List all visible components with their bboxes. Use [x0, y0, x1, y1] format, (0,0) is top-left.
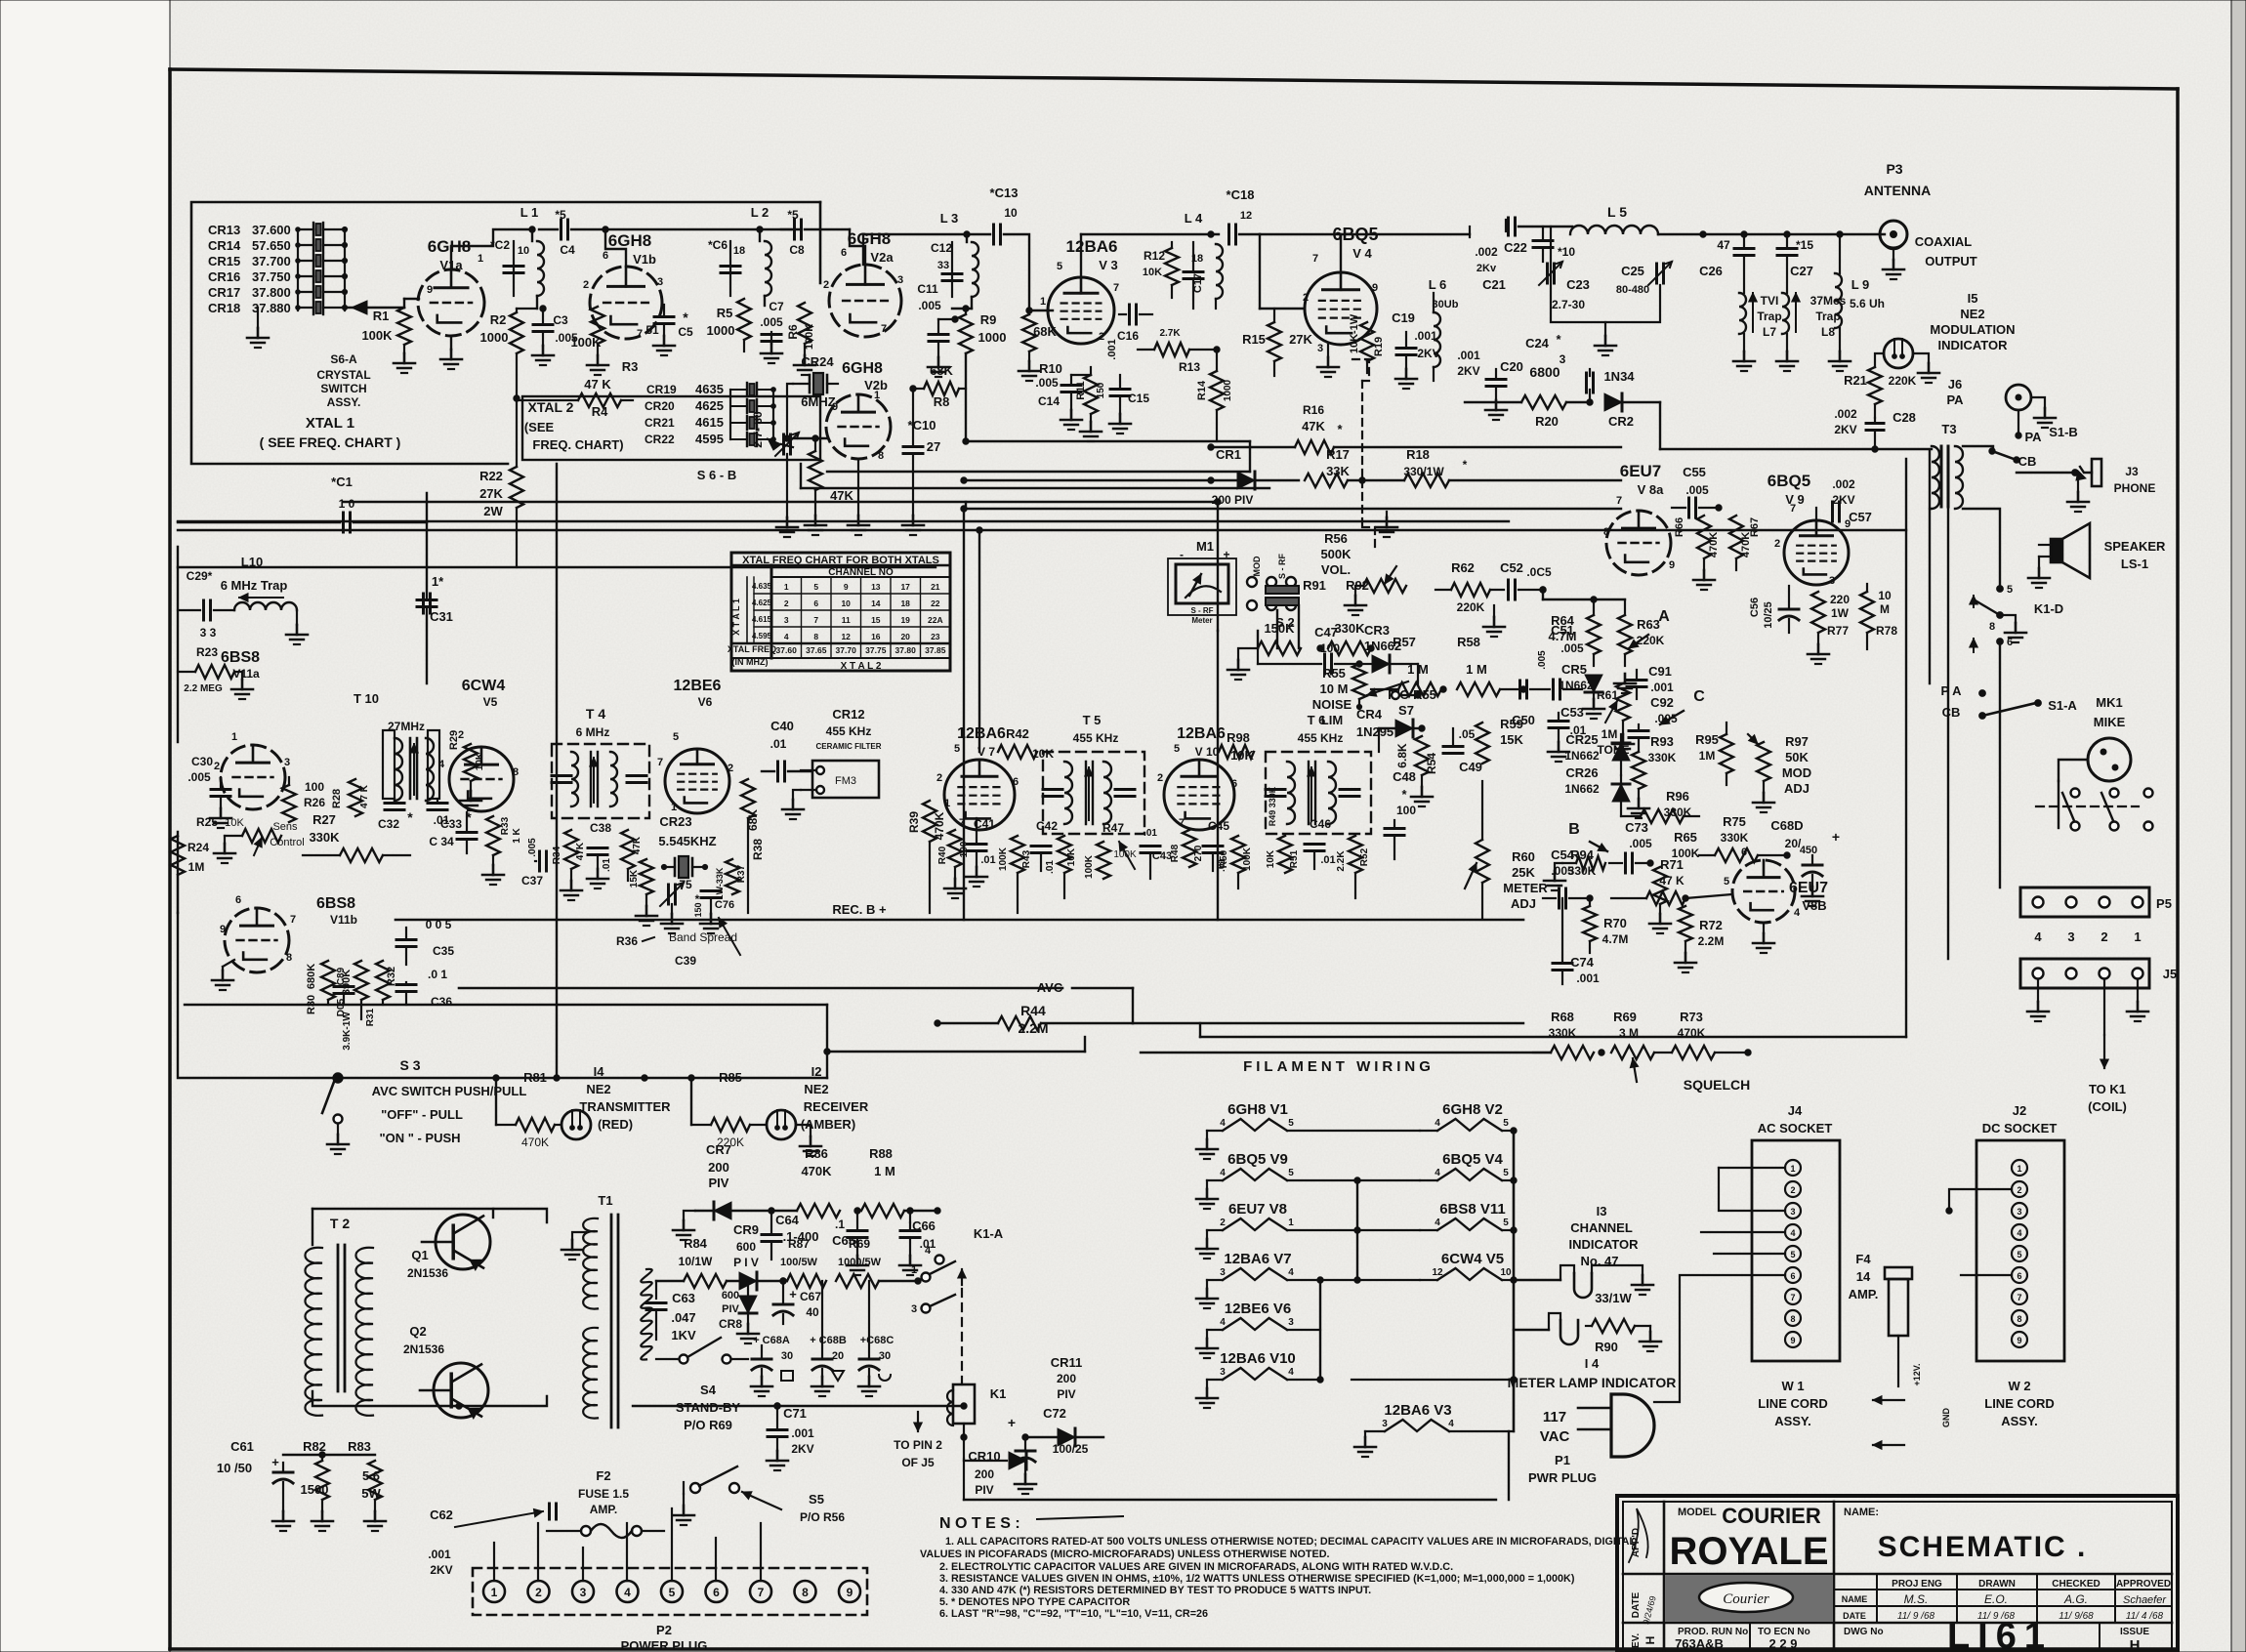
- svg-text:+: +: [271, 1455, 279, 1469]
- svg-text:14: 14: [1856, 1269, 1871, 1284]
- svg-text:2: 2: [2017, 1185, 2021, 1195]
- capacitor C1 10: [178, 475, 427, 532]
- tube V9 6BQ5: [1768, 472, 1855, 587]
- J4 pin 2: [1785, 1181, 1801, 1197]
- svg-text:6: 6: [1231, 778, 1237, 790]
- svg-text:TRANSMITTER: TRANSMITTER: [579, 1099, 671, 1114]
- potentiometer R56 500K VOL: [1320, 531, 1406, 615]
- svg-text:6MHZ: 6MHZ: [801, 394, 835, 409]
- svg-text:R6: R6: [786, 324, 800, 340]
- connector P3 ANTENNA: [1864, 161, 1977, 279]
- tube V6 12BE6: [657, 678, 733, 813]
- wire long h521: [966, 502, 1621, 509]
- V2a plate wire: [850, 229, 865, 265]
- capacitor C31 1*: [417, 493, 453, 683]
- svg-text:2: 2: [936, 772, 942, 784]
- svg-text:*15: *15: [1796, 238, 1813, 252]
- svg-text:LINE CORD: LINE CORD: [1758, 1396, 1828, 1411]
- svg-text:57.650: 57.650: [252, 238, 291, 253]
- wire T2 top: [312, 1209, 313, 1245]
- svg-text:.005: .005: [1537, 650, 1548, 670]
- wire cr1 left: [961, 477, 1214, 483]
- svg-text:47K: 47K: [575, 842, 586, 860]
- svg-text:23: 23: [931, 632, 940, 641]
- resistor R64 4.7M: [1549, 599, 1601, 666]
- svg-text:R73: R73: [1680, 1010, 1703, 1024]
- resistor R24 1M: [171, 836, 209, 913]
- svg-text:PA: PA: [1946, 392, 1964, 407]
- svg-text:47 K: 47 K: [584, 377, 611, 392]
- svg-text:C4: C4: [560, 243, 575, 257]
- svg-text:6: 6: [2007, 637, 2013, 648]
- wire avc vertical: [1133, 988, 1141, 1053]
- svg-text:.05: .05: [1459, 727, 1476, 741]
- svg-text:8: 8: [1790, 1314, 1795, 1324]
- svg-text:220K: 220K: [1889, 374, 1917, 388]
- svg-text:9: 9: [1372, 282, 1378, 294]
- svg-text:CR19: CR19: [646, 383, 677, 396]
- wire bus REC B+: [395, 902, 1523, 920]
- svg-text:6: 6: [235, 894, 241, 906]
- dwg no cell: [1844, 1616, 2149, 1652]
- capacitor C45 .01: [1203, 819, 1229, 872]
- svg-text:C5: C5: [678, 325, 693, 339]
- svg-text:5: 5: [1288, 1168, 1294, 1178]
- svg-text:4: 4: [2017, 1228, 2021, 1238]
- svg-text:5: 5: [1503, 1168, 1509, 1178]
- W2 gnd arrows: [1873, 1275, 1951, 1449]
- capacitor C48 *100: [1385, 769, 1416, 859]
- svg-text:8: 8: [513, 766, 519, 778]
- svg-text:+: +: [1832, 829, 1840, 845]
- svg-text:SPEAKER: SPEAKER: [2104, 539, 2166, 554]
- svg-text:5: 5: [673, 731, 679, 743]
- filament 12BA6 V3: [1354, 1402, 1514, 1457]
- svg-text:*C2: *C2: [490, 238, 510, 252]
- svg-text:A: A: [1658, 608, 1670, 625]
- svg-text:4.595: 4.595: [752, 632, 772, 640]
- svg-text:C21: C21: [1482, 277, 1506, 292]
- resistor R13 2.7K: [1138, 328, 1220, 374]
- svg-text:R98: R98: [1227, 730, 1250, 745]
- wire S1B to phone: [2017, 470, 2078, 476]
- svg-text:2: 2: [1790, 1185, 1795, 1195]
- svg-text:2.2 MEG: 2.2 MEG: [184, 683, 223, 694]
- wire Q1 collector top: [312, 1209, 547, 1222]
- svg-text:6: 6: [713, 1586, 720, 1599]
- resistor R98 10K: [1199, 730, 1255, 763]
- svg-text:5: 5: [1724, 876, 1729, 888]
- P2 pin 2: [528, 1581, 550, 1602]
- transformer T4 6MHz: [552, 706, 649, 818]
- svg-text:37.600: 37.600: [252, 223, 291, 237]
- svg-text:1M: 1M: [188, 860, 205, 874]
- tube V3 12BA6: [1040, 237, 1119, 344]
- svg-text:1000: 1000: [707, 323, 735, 338]
- svg-text:7: 7: [1312, 253, 1318, 265]
- resistor R27 330K: [303, 812, 410, 862]
- capacitor C56 10/25: [1749, 586, 1799, 633]
- svg-text:763A&B: 763A&B: [1675, 1636, 1724, 1651]
- svg-text:-: -: [1180, 548, 1184, 561]
- svg-text:DC SOCKET: DC SOCKET: [1982, 1121, 2058, 1136]
- tube V1a 6GH8: [418, 237, 484, 336]
- resistor R88 1M: [861, 1146, 940, 1218]
- ground mid: [1376, 512, 1397, 537]
- svg-text:R61: R61: [1597, 688, 1618, 702]
- J2 pin 8: [2012, 1310, 2027, 1326]
- svg-text:X T A L 2: X T A L 2: [841, 661, 882, 672]
- svg-text:80-480: 80-480: [1616, 284, 1649, 296]
- svg-text:CB: CB: [2018, 454, 2037, 469]
- svg-text:+: +: [1223, 548, 1229, 561]
- wire P2 pin risers: [494, 1508, 761, 1581]
- svg-text:METER LAMP INDICATOR: METER LAMP INDICATOR: [1508, 1375, 1677, 1390]
- fuse F2 1.5A: [547, 1468, 664, 1538]
- resistor R40 100: [937, 830, 970, 898]
- svg-text:*10: *10: [1558, 245, 1575, 259]
- svg-text:L7: L7: [1763, 325, 1776, 339]
- svg-text:3: 3: [897, 274, 903, 286]
- wire mid box: [178, 832, 827, 1081]
- resistor R69 3M: [1599, 1010, 1654, 1082]
- filament V1 row: [1196, 1101, 1514, 1159]
- capacitor C61 10/50: [217, 1439, 294, 1531]
- svg-text:5: 5: [1790, 1250, 1795, 1260]
- svg-text:LS-1: LS-1: [2121, 557, 2148, 571]
- svg-text:1000: 1000: [978, 330, 1007, 345]
- svg-text:5: 5: [1057, 261, 1062, 272]
- resistor R4 47K: [517, 377, 633, 419]
- svg-text:VOL.: VOL.: [1321, 562, 1351, 577]
- svg-text:R68: R68: [1551, 1010, 1574, 1024]
- label R36 Band Spread: [616, 918, 740, 968]
- svg-text:.002: .002: [1475, 245, 1498, 259]
- svg-text:C7: C7: [769, 300, 784, 313]
- wire V1a plate to L1: [451, 229, 532, 269]
- node C: [1660, 688, 1705, 724]
- resistor R78 10M: [1860, 584, 1897, 649]
- svg-text:330K: 330K: [1721, 831, 1749, 845]
- inductor L9 5.6Uh: [1829, 234, 1885, 371]
- svg-text:C72: C72: [1043, 1406, 1066, 1421]
- V4 cathode gnd: [1317, 345, 1339, 377]
- diode CR11 200 PIV: [1022, 1355, 1103, 1446]
- svg-text:C73: C73: [1625, 820, 1648, 835]
- svg-text:C62: C62: [430, 1507, 453, 1522]
- svg-text:ADJ: ADJ: [1511, 896, 1536, 911]
- indicator I5 NE2 MODULATION: [1930, 291, 2015, 352]
- svg-text:20: 20: [832, 1350, 844, 1362]
- svg-text:R26: R26: [304, 796, 325, 809]
- wire bus AVC: [459, 980, 1133, 995]
- svg-text:4.615: 4.615: [752, 615, 772, 624]
- svg-text:8: 8: [286, 952, 292, 964]
- svg-text:1 K: 1 K: [512, 827, 522, 843]
- svg-text:V2a: V2a: [870, 250, 894, 265]
- svg-text:NAME:: NAME:: [1844, 1507, 1879, 1518]
- svg-text:4.625: 4.625: [752, 599, 772, 607]
- svg-text:DATE: DATE: [1843, 1611, 1866, 1621]
- svg-text:.01: .01: [1144, 828, 1157, 839]
- svg-text:.002: .002: [1832, 477, 1855, 491]
- svg-text:3: 3: [2067, 929, 2074, 944]
- svg-text:R13: R13: [1179, 360, 1200, 374]
- svg-text:6800: 6800: [1529, 364, 1560, 380]
- svg-text:P I V: P I V: [733, 1256, 759, 1269]
- svg-text:450: 450: [1800, 845, 1817, 856]
- svg-text:VAC: VAC: [1540, 1428, 1570, 1445]
- svg-text:1. ALL CAPACITORS RATED-AT 500: 1. ALL CAPACITORS RATED-AT 500 VOLTS UNL…: [945, 1536, 1636, 1548]
- svg-text:R20: R20: [1535, 414, 1559, 429]
- svg-text:R49 330K: R49 330K: [1268, 786, 1277, 826]
- svg-text:R87: R87: [788, 1237, 810, 1251]
- svg-text:GND: GND: [1941, 1408, 1951, 1428]
- svg-text:L 5: L 5: [1607, 204, 1627, 220]
- svg-text:12BE6: 12BE6: [674, 678, 722, 694]
- ground xtal bank: [247, 308, 269, 348]
- crystal CR22 4595: [645, 432, 793, 450]
- svg-text:F2: F2: [596, 1468, 610, 1483]
- tube V1b 6GH8: [583, 231, 663, 339]
- svg-text:.005: .005: [1551, 864, 1574, 878]
- svg-text:2: 2: [535, 1586, 542, 1599]
- capacitor C68A 30: [751, 1335, 793, 1396]
- resistor R18 330/1W: [1362, 447, 1621, 487]
- svg-text:8: 8: [2017, 1314, 2021, 1324]
- svg-text:T1: T1: [598, 1193, 612, 1208]
- capacitor C22 10: [1504, 227, 1575, 262]
- svg-text:10 M: 10 M: [1320, 681, 1349, 696]
- resistor R86 470K: [771, 1146, 860, 1218]
- svg-text:P/O R56: P/O R56: [800, 1510, 845, 1524]
- svg-text:STAND-BY: STAND-BY: [676, 1400, 741, 1415]
- svg-text:19: 19: [900, 615, 910, 625]
- xtal chart XTAL2 label: [841, 661, 882, 672]
- svg-text:MODEL: MODEL: [1678, 1507, 1717, 1518]
- svg-text:RECEIVER: RECEIVER: [804, 1099, 869, 1114]
- svg-text:.01: .01: [602, 858, 612, 872]
- resistor R95 1M: [1695, 723, 1733, 785]
- svg-text:5: 5: [2017, 1250, 2021, 1260]
- svg-text:S1-B: S1-B: [2049, 425, 2078, 439]
- svg-text:J5: J5: [2163, 967, 2177, 981]
- svg-text:M.S.: M.S.: [1904, 1592, 1929, 1606]
- resistor R33 1K: [482, 816, 522, 885]
- svg-text:OF J5: OF J5: [901, 1456, 935, 1469]
- svg-text:3: 3: [1220, 1267, 1226, 1278]
- svg-text:CR17: CR17: [208, 285, 240, 300]
- svg-text:4.7M: 4.7M: [1549, 629, 1577, 643]
- wire top mid verticals: [961, 506, 982, 920]
- crystal CR20 4625: [645, 398, 775, 413]
- transistor Q1 2N1536: [407, 1215, 490, 1280]
- svg-text:2.2M: 2.2M: [1698, 934, 1725, 948]
- svg-text:30: 30: [781, 1350, 793, 1362]
- svg-text:1W: 1W: [1831, 606, 1850, 620]
- capacitor C38 .01: [587, 821, 612, 888]
- V4 grid wire: [1260, 234, 1305, 309]
- svg-text:51: 51: [645, 323, 659, 337]
- svg-text:3: 3: [657, 276, 663, 288]
- P2 pin 5: [661, 1581, 683, 1602]
- svg-text:C61: C61: [230, 1439, 254, 1454]
- svg-text:9: 9: [220, 924, 226, 935]
- svg-text:C28: C28: [1892, 410, 1916, 425]
- svg-text:75: 75: [679, 878, 692, 891]
- svg-text:L 4: L 4: [1185, 211, 1203, 226]
- svg-text:3: 3: [1382, 1419, 1388, 1429]
- svg-text:I4: I4: [594, 1064, 605, 1079]
- capacitor C11 .005: [917, 282, 958, 377]
- svg-text:1N295: 1N295: [1356, 724, 1393, 739]
- name date rows: [1842, 1592, 2168, 1621]
- svg-text:1: 1: [1040, 296, 1046, 308]
- svg-text:Trap: Trap: [1815, 310, 1840, 323]
- svg-text:AVC SWITCH PUSH/PULL: AVC SWITCH PUSH/PULL: [372, 1084, 527, 1098]
- resistor R91 label: [1303, 578, 1369, 593]
- svg-text:9: 9: [1669, 559, 1675, 571]
- svg-text:.005: .005: [527, 838, 538, 857]
- svg-text:S1-A: S1-A: [2048, 698, 2077, 713]
- svg-text:3: 3: [1220, 1367, 1226, 1378]
- capacitor C21 .002 2KV: [1470, 218, 1516, 292]
- capacitor C10 27: [902, 391, 940, 535]
- capacitor C32: [378, 799, 413, 831]
- resistor R23 2.2MEG: [178, 645, 253, 699]
- svg-text:R27: R27: [312, 812, 336, 827]
- svg-text:4: 4: [438, 759, 445, 770]
- svg-text:.01: .01: [1320, 854, 1335, 866]
- title block col dividers: [1623, 1502, 2172, 1652]
- capacitor C7 .005: [760, 300, 784, 363]
- svg-text:I5: I5: [1968, 291, 1978, 306]
- xtal freq chart box: [731, 553, 950, 671]
- wire squelch wrap: [827, 1037, 1200, 1052]
- svg-text:C68D: C68D: [1770, 818, 1803, 833]
- relay K1-D: [1970, 584, 2063, 652]
- svg-text:R10: R10: [1039, 361, 1062, 376]
- svg-text:47K: 47K: [632, 836, 643, 854]
- V11b cathode gnd: [212, 960, 234, 990]
- capacitor C6 18: [708, 238, 745, 296]
- svg-text:8: 8: [802, 1586, 809, 1599]
- XTAL 2 label: [524, 399, 624, 452]
- svg-text:( SEE FREQ. CHART ): ( SEE FREQ. CHART ): [260, 434, 401, 450]
- capacitor C35 .005: [396, 918, 454, 965]
- svg-text:4: 4: [1435, 1118, 1440, 1129]
- crystal CR14: [208, 238, 348, 253]
- capacitor C47 100: [1227, 625, 1362, 680]
- svg-text:100: 100: [305, 780, 324, 794]
- svg-text:*C10: *C10: [908, 418, 936, 433]
- svg-text:R62: R62: [1451, 560, 1475, 575]
- svg-text:5: 5: [1288, 1118, 1294, 1129]
- crystal CR17: [208, 285, 348, 300]
- XTAL 1 label: [260, 415, 401, 450]
- svg-text:FM3: FM3: [835, 775, 856, 787]
- wire to K1 coil: [2088, 979, 2127, 1114]
- capacitor C76: [700, 891, 734, 934]
- capacitor C20 .001 2KV: [1457, 349, 1523, 420]
- tube V5 6CW4: [438, 678, 519, 811]
- svg-text:VALUES IN PICOFARADS (MICRO-MI: VALUES IN PICOFARADS (MICRO-MICROFARADS)…: [920, 1549, 1330, 1560]
- svg-text:4.7M: 4.7M: [1602, 932, 1629, 946]
- resistor R51 10K: [1266, 836, 1300, 873]
- svg-text:12BA6 V10: 12BA6 V10: [1220, 1350, 1296, 1367]
- svg-text:.005: .005: [187, 770, 211, 784]
- inductor L8 37Mcs Trap: [1776, 293, 1847, 371]
- wire V4 top: [1341, 227, 1470, 234]
- svg-text:40: 40: [806, 1305, 819, 1319]
- svg-text:6BS8: 6BS8: [316, 895, 355, 912]
- resistor R17 33K: [1305, 447, 1365, 487]
- T3 primary wires: [1875, 446, 2000, 589]
- resistor R22 27K 2W: [479, 398, 523, 567]
- inductor L2: [751, 205, 771, 306]
- svg-text:100/25: 100/25: [1053, 1442, 1089, 1456]
- svg-text:470K: 470K: [801, 1164, 832, 1178]
- svg-text:455 KHz: 455 KHz: [826, 724, 872, 738]
- connector J5: [2020, 959, 2177, 988]
- wire bus to J5: [1133, 1019, 1748, 1053]
- trimmer 2.7-30: [751, 411, 828, 537]
- resistor R48 270: [1170, 830, 1204, 867]
- DATE cell: [1631, 1591, 1658, 1626]
- J4 pin 7: [1785, 1289, 1801, 1304]
- svg-text:37.85: 37.85: [925, 645, 946, 655]
- svg-text:5.545KHZ: 5.545KHZ: [658, 834, 716, 848]
- P2 pin 3: [572, 1581, 594, 1602]
- wire C28 to T3 bus: [1660, 446, 1878, 452]
- svg-text:.005: .005: [760, 315, 783, 329]
- xtal chart XTAL1 label: [731, 599, 741, 636]
- svg-text:NE2: NE2: [1960, 307, 1984, 321]
- svg-text:10K: 10K: [1266, 849, 1276, 868]
- resistor R35 47K: [621, 830, 643, 881]
- svg-text:ROYALE: ROYALE: [1669, 1530, 1828, 1573]
- wire K1A dashes: [961, 1289, 963, 1384]
- switch S1-B: [1989, 425, 2078, 473]
- svg-text:TO PIN 2: TO PIN 2: [894, 1438, 942, 1452]
- svg-text:2Kv: 2Kv: [1477, 263, 1497, 274]
- svg-text:37.75: 37.75: [865, 645, 887, 655]
- svg-text:B: B: [1568, 821, 1580, 838]
- svg-text:2KV: 2KV: [1834, 423, 1856, 436]
- svg-text:(SEE: (SEE: [524, 420, 555, 434]
- svg-text:6EU7: 6EU7: [1620, 462, 1662, 480]
- svg-text:1: 1: [2017, 1164, 2021, 1174]
- svg-text:R16: R16: [1303, 403, 1324, 417]
- capacitor C49 .05: [1422, 727, 1482, 774]
- svg-text:FREQ. CHART): FREQ. CHART): [532, 437, 623, 452]
- svg-text:6: 6: [813, 599, 818, 608]
- svg-text:T 5: T 5: [1083, 713, 1102, 727]
- connector J6 PA: [1946, 377, 2056, 444]
- J4 pin 1: [1785, 1160, 1801, 1176]
- svg-text:R72: R72: [1699, 918, 1723, 932]
- svg-text:4615: 4615: [695, 415, 724, 430]
- svg-text:L8: L8: [1821, 325, 1835, 339]
- mic switch assembly: [2036, 781, 2153, 831]
- svg-text:CR2: CR2: [1608, 414, 1634, 429]
- capacitor C66 .01: [899, 1208, 936, 1275]
- wire right side vert: [1930, 451, 2000, 959]
- capacitor C71 .001 2KV: [767, 1403, 814, 1470]
- svg-text:CR1: CR1: [1216, 447, 1241, 462]
- svg-text:AMP.: AMP.: [1849, 1287, 1879, 1301]
- svg-text:1000: 1000: [1223, 379, 1233, 401]
